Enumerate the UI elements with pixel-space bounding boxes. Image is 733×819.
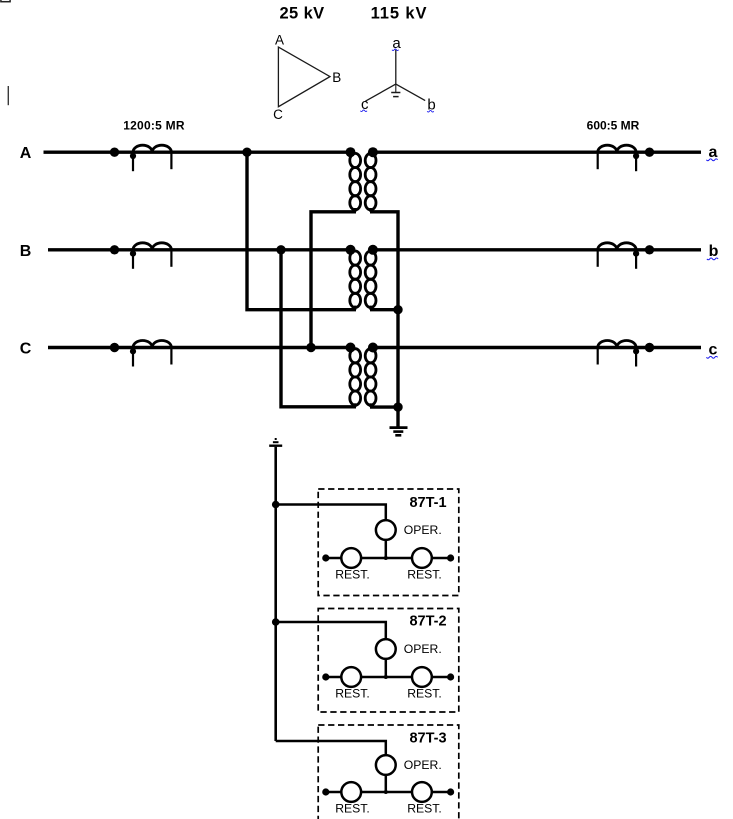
wire wye neutral from W1 secondary — [370, 212, 398, 427]
svg-text:REST.: REST. — [335, 568, 370, 582]
wire relay bus vertical — [274, 447, 277, 741]
wire phase c secondary — [373, 346, 701, 349]
svg-text:87T-2: 87T-2 — [409, 614, 446, 630]
relay 87T-1 — [272, 489, 459, 596]
svg-text:1200:5 MR: 1200:5 MR — [123, 119, 185, 133]
svg-text:OPER.: OPER. — [404, 523, 442, 537]
svg-text:c: c — [709, 341, 718, 358]
node dot phase A delta tap — [242, 148, 251, 157]
svg-text:REST.: REST. — [335, 687, 370, 701]
node dot neutral W3 — [393, 402, 402, 411]
transformer winding W3 primary coil (phase C) — [346, 343, 361, 408]
wire delta W2 bottom to phase A — [247, 152, 356, 310]
svg-text:REST.: REST. — [407, 568, 442, 582]
node dot neutral W2 — [393, 305, 402, 314]
transformer winding W3 secondary coil (phase c) — [365, 343, 378, 408]
svg-text:REST.: REST. — [335, 802, 370, 816]
svg-text:OPER.: OPER. — [404, 642, 442, 656]
svg-text:REST.: REST. — [407, 687, 442, 701]
svg-text:b: b — [709, 243, 719, 260]
CT 1200:5 phase C — [130, 341, 172, 367]
cursor artifact — [7, 86, 9, 105]
node dot phase C left — [110, 343, 119, 352]
svg-text:C: C — [20, 340, 32, 357]
wire wye neutral from W2 secondary — [370, 308, 398, 311]
wye symbol legend — [360, 35, 435, 113]
svg-text:a: a — [709, 144, 718, 161]
svg-text:25 kV: 25 kV — [279, 5, 324, 23]
CT 1200:5 phase A — [130, 145, 172, 171]
svg-text:A: A — [20, 145, 32, 162]
CT 1200:5 phase B — [130, 243, 172, 269]
svg-text:A: A — [275, 33, 284, 48]
svg-text:OPER.: OPER. — [404, 758, 442, 772]
wire delta W3 bottom to phase B — [281, 250, 356, 407]
node dot phase B delta tap — [276, 245, 285, 254]
svg-text:87T-3: 87T-3 — [409, 730, 446, 746]
wire phase b secondary — [373, 248, 701, 251]
svg-text:B: B — [332, 70, 341, 85]
CT 600:5 phase c — [598, 341, 655, 367]
transformer winding W2 secondary coil (phase b) — [365, 245, 378, 310]
node dot phase C delta tap — [306, 343, 315, 352]
CT 600:5 phase a — [598, 145, 655, 171]
wire wye neutral from W3 secondary — [370, 405, 398, 408]
transformer winding W1 primary coil (phase A) — [346, 147, 361, 212]
node dot phase B left — [110, 245, 119, 254]
svg-text:C: C — [273, 107, 283, 122]
svg-text:B: B — [20, 243, 32, 260]
relay 87T-2 — [272, 609, 459, 713]
svg-text:115 kV: 115 kV — [371, 5, 428, 23]
wire delta W1 bottom to phase C — [311, 212, 356, 348]
corner artifact rectangle — [1, 0, 10, 2]
delta symbol legend — [273, 33, 341, 122]
svg-text:87T-1: 87T-1 — [409, 495, 446, 511]
wire phase a secondary — [373, 150, 701, 153]
transformer winding W1 secondary coil (phase a) — [365, 147, 378, 212]
svg-text:600:5 MR: 600:5 MR — [587, 119, 640, 133]
wire phase B primary — [48, 248, 351, 251]
wire phase C primary — [48, 346, 351, 349]
wire phase A primary — [44, 150, 351, 153]
svg-text:REST.: REST. — [407, 802, 442, 816]
ground wye neutral — [390, 428, 408, 436]
transformer winding W2 primary coil (phase B) — [346, 245, 361, 310]
ground symbol (inverted) at relay bus top — [269, 439, 282, 446]
node dot phase A left — [110, 148, 119, 157]
relay 87T-3 — [276, 725, 459, 819]
CT 600:5 phase b — [598, 243, 655, 269]
